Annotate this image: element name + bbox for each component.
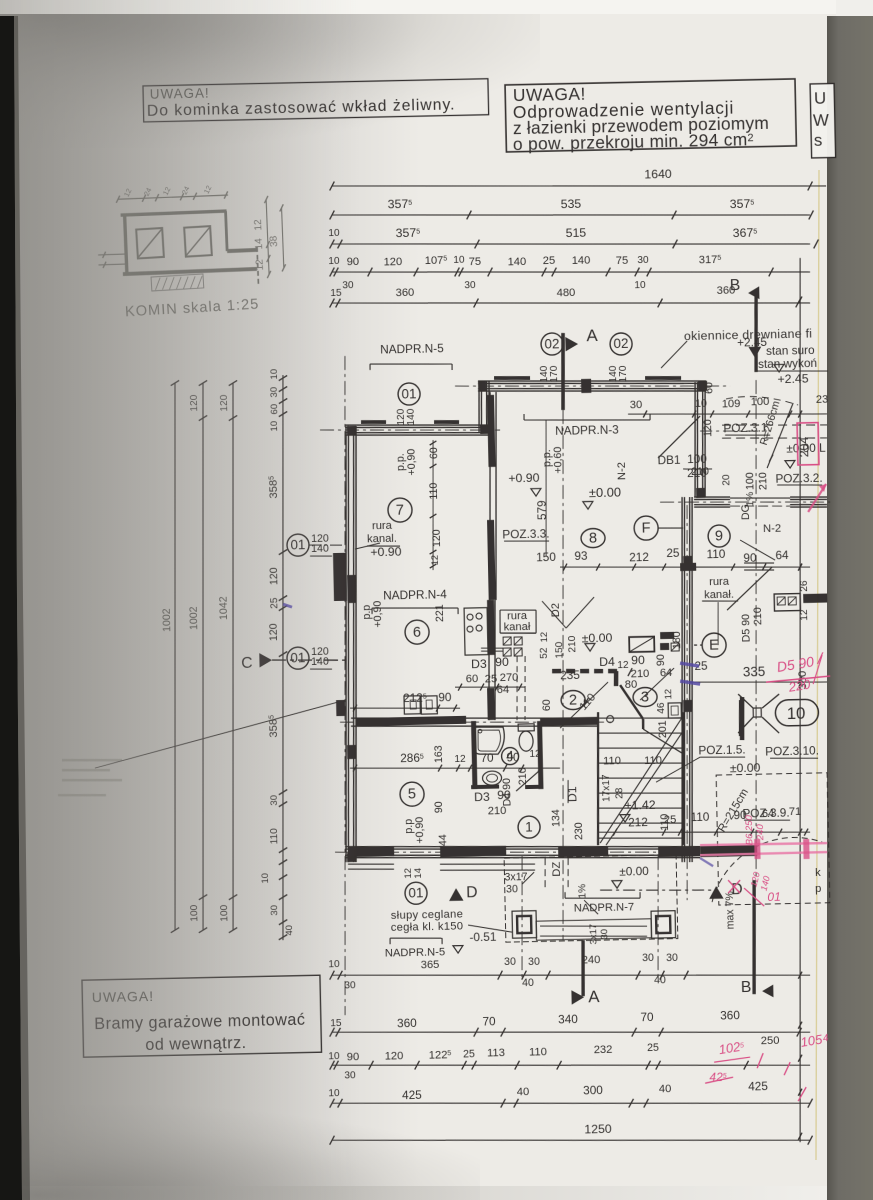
- svg-text:150: 150: [554, 641, 565, 658]
- svg-text:90: 90: [438, 690, 452, 704]
- svg-text:02: 02: [544, 336, 559, 351]
- svg-text:NADPR.N-3: NADPR.N-3: [555, 422, 619, 437]
- svg-text:240: 240: [755, 823, 766, 841]
- svg-text:100: 100: [744, 472, 756, 490]
- svg-text:64: 64: [775, 548, 789, 562]
- svg-text:+0,90: +0,90: [406, 448, 419, 475]
- svg-text:26: 26: [799, 580, 810, 592]
- svg-text:170: 170: [549, 365, 560, 382]
- svg-text:515: 515: [566, 226, 587, 240]
- svg-text:90: 90: [497, 788, 511, 802]
- svg-text:120: 120: [383, 256, 402, 268]
- svg-text:02: 02: [613, 336, 628, 351]
- svg-text:9: 9: [715, 528, 723, 544]
- svg-text:60: 60: [466, 673, 479, 685]
- svg-text:kanał.: kanał.: [704, 589, 734, 602]
- svg-text:30: 30: [630, 399, 643, 411]
- svg-text:100: 100: [687, 452, 707, 466]
- svg-text:40: 40: [517, 1086, 530, 1098]
- svg-text:2: 2: [569, 693, 577, 709]
- svg-text:40: 40: [654, 974, 666, 986]
- svg-text:+2.45: +2.45: [777, 372, 809, 387]
- svg-text:12: 12: [663, 689, 674, 700]
- svg-text:±0.00: ±0.00: [589, 485, 621, 501]
- svg-text:20: 20: [721, 474, 732, 486]
- svg-text:71: 71: [789, 806, 802, 818]
- svg-text:25: 25: [463, 1048, 475, 1060]
- svg-text:23: 23: [816, 394, 829, 406]
- svg-text:12: 12: [539, 632, 550, 643]
- svg-text:425: 425: [402, 1088, 422, 1102]
- svg-text:NADPR.N-5: NADPR.N-5: [380, 341, 444, 356]
- svg-text:k: k: [815, 867, 821, 879]
- svg-text:232: 232: [594, 1044, 613, 1056]
- svg-text:60: 60: [703, 382, 715, 394]
- svg-text:POZ.3.10.: POZ.3.10.: [765, 744, 819, 759]
- svg-text:N-2: N-2: [763, 523, 781, 535]
- svg-text:DZ: DZ: [551, 861, 563, 876]
- svg-text:64: 64: [762, 808, 775, 820]
- svg-text:+0.90: +0.90: [508, 471, 540, 486]
- svg-text:30: 30: [642, 952, 654, 964]
- svg-text:±0.00: ±0.00: [619, 864, 649, 879]
- svg-text:235: 235: [560, 668, 580, 682]
- svg-text:stan wykoń: stan wykoń: [758, 356, 817, 371]
- svg-text:DG: DG: [740, 504, 752, 520]
- svg-text:5: 5: [408, 787, 416, 803]
- svg-text:335: 335: [743, 664, 766, 679]
- svg-text:204: 204: [797, 437, 811, 458]
- svg-text:110: 110: [529, 1046, 547, 1058]
- svg-text:+0,60: +0,60: [552, 446, 565, 473]
- svg-text:70: 70: [640, 1010, 654, 1024]
- svg-text:113: 113: [487, 1047, 505, 1059]
- svg-text:10: 10: [453, 255, 465, 266]
- svg-text:A: A: [586, 326, 598, 345]
- svg-text:s: s: [814, 131, 823, 150]
- svg-text:25: 25: [666, 546, 680, 560]
- svg-text:163: 163: [433, 745, 445, 763]
- svg-text:44: 44: [437, 834, 449, 846]
- svg-text:75: 75: [616, 255, 629, 267]
- svg-text:120: 120: [702, 419, 714, 437]
- svg-text:40: 40: [659, 1083, 672, 1095]
- svg-text:240: 240: [582, 954, 601, 966]
- svg-text:25: 25: [664, 814, 677, 826]
- svg-text:8: 8: [589, 531, 597, 547]
- svg-text:90: 90: [655, 654, 667, 666]
- svg-text:1640: 1640: [644, 167, 672, 182]
- svg-text:D5 90: D5 90: [740, 614, 753, 643]
- svg-text:90: 90: [506, 750, 520, 764]
- svg-text:D: D: [466, 884, 478, 901]
- svg-text:360: 360: [720, 1008, 740, 1022]
- svg-text:30: 30: [464, 280, 476, 291]
- svg-text:01: 01: [767, 890, 781, 904]
- svg-text:535: 535: [561, 197, 582, 211]
- svg-text:579: 579: [535, 500, 549, 520]
- svg-text:110: 110: [690, 810, 710, 824]
- svg-text:93: 93: [574, 549, 588, 563]
- svg-text:40: 40: [522, 977, 534, 989]
- svg-text:+0.90: +0.90: [370, 545, 402, 560]
- svg-text:B: B: [741, 979, 752, 996]
- svg-text:D1: D1: [565, 786, 579, 802]
- svg-text:rura: rura: [372, 520, 393, 532]
- svg-text:12: 12: [529, 749, 541, 760]
- svg-text:210: 210: [488, 805, 507, 817]
- svg-text:12: 12: [617, 660, 629, 671]
- svg-text:140: 140: [406, 408, 417, 425]
- svg-text:250: 250: [761, 1035, 780, 1047]
- svg-text:NADPR.N-5: NADPR.N-5: [385, 947, 446, 960]
- svg-text:+0,90: +0,90: [372, 600, 385, 627]
- svg-text:kanał: kanał: [503, 621, 531, 634]
- svg-text:180: 180: [671, 631, 683, 649]
- svg-text:25: 25: [485, 673, 498, 685]
- svg-text:221: 221: [434, 604, 446, 622]
- svg-text:210: 210: [567, 635, 578, 652]
- svg-text:150: 150: [536, 550, 556, 564]
- svg-text:64: 64: [497, 684, 510, 696]
- svg-text:80: 80: [625, 679, 638, 691]
- svg-text:120: 120: [385, 1050, 404, 1062]
- svg-text:52: 52: [539, 647, 550, 659]
- svg-text:25: 25: [543, 255, 556, 267]
- svg-text:60: 60: [428, 447, 440, 459]
- svg-text:110: 110: [644, 755, 662, 767]
- svg-text:-0.51: -0.51: [469, 930, 496, 945]
- svg-text:212: 212: [629, 550, 649, 564]
- svg-text:10: 10: [787, 704, 806, 723]
- svg-text:210: 210: [517, 767, 529, 785]
- svg-text:270: 270: [500, 672, 519, 684]
- svg-text:70: 70: [482, 1014, 496, 1028]
- svg-text:10: 10: [634, 280, 646, 291]
- svg-text:365: 365: [421, 959, 440, 971]
- svg-text:6: 6: [413, 625, 421, 641]
- svg-text:110: 110: [603, 755, 621, 767]
- svg-text:30: 30: [599, 929, 610, 940]
- svg-text:90: 90: [495, 655, 509, 669]
- svg-text:210: 210: [752, 607, 764, 625]
- svg-text:17x17: 17x17: [601, 774, 613, 802]
- svg-text:7: 7: [396, 503, 404, 519]
- svg-text:30: 30: [637, 255, 649, 266]
- svg-text:425: 425: [748, 1079, 768, 1093]
- svg-text:140: 140: [572, 255, 591, 267]
- svg-text:POZ.1.5.: POZ.1.5.: [698, 743, 746, 758]
- svg-text:340: 340: [558, 1012, 578, 1026]
- svg-text:360: 360: [395, 287, 414, 299]
- svg-text:1250: 1250: [584, 1122, 612, 1137]
- svg-text:rura: rura: [709, 576, 730, 588]
- svg-text:1%: 1%: [577, 884, 588, 899]
- svg-text:30: 30: [528, 956, 540, 968]
- svg-text:170: 170: [618, 365, 629, 382]
- svg-text:okiennice drewniane fi: okiennice drewniane fi: [684, 326, 813, 343]
- svg-text:+0,90: +0,90: [414, 817, 427, 844]
- svg-text:360: 360: [397, 1016, 417, 1030]
- svg-text:1: 1: [525, 819, 533, 834]
- svg-text:480: 480: [557, 287, 576, 299]
- svg-text:cegła kl. k150: cegła kl. k150: [391, 920, 464, 934]
- svg-text:90: 90: [631, 653, 645, 667]
- svg-text:NADPR.N-4: NADPR.N-4: [383, 587, 447, 602]
- svg-text:+1.42: +1.42: [624, 798, 656, 813]
- svg-text:POZ.3.3.: POZ.3.3.: [502, 527, 550, 542]
- svg-text:W: W: [813, 111, 829, 130]
- svg-text:D2: D2: [550, 603, 562, 618]
- svg-text:28: 28: [614, 787, 625, 799]
- svg-text:60: 60: [541, 699, 553, 711]
- svg-text:3x17: 3x17: [588, 924, 599, 945]
- svg-text:B: B: [730, 277, 741, 294]
- svg-text:01: 01: [408, 885, 423, 900]
- svg-text:U: U: [814, 89, 827, 108]
- svg-text:140: 140: [507, 256, 526, 268]
- svg-text:30: 30: [666, 952, 678, 964]
- svg-text:01: 01: [401, 386, 416, 401]
- svg-text:300: 300: [583, 1083, 603, 1097]
- svg-text:110: 110: [428, 482, 440, 499]
- svg-text:134: 134: [550, 809, 562, 827]
- svg-text:POZ.3.2.: POZ.3.2.: [775, 471, 823, 486]
- svg-text:N-2: N-2: [616, 462, 628, 480]
- svg-text:210: 210: [691, 466, 709, 478]
- svg-text:90: 90: [433, 801, 445, 813]
- svg-text:kanal.: kanal.: [367, 533, 397, 546]
- svg-text:30: 30: [506, 883, 518, 895]
- svg-text:210: 210: [757, 472, 769, 490]
- svg-text:B6 250: B6 250: [744, 814, 756, 845]
- svg-text:NADPR.N-7: NADPR.N-7: [574, 902, 635, 915]
- svg-text:30: 30: [504, 956, 516, 968]
- svg-text:D3: D3: [474, 790, 490, 804]
- svg-text:201: 201: [657, 720, 669, 738]
- svg-text:110: 110: [706, 547, 726, 561]
- svg-text:109: 109: [722, 398, 741, 410]
- svg-text:D3: D3: [471, 657, 487, 671]
- svg-text:75: 75: [469, 256, 482, 268]
- svg-text:p: p: [815, 883, 821, 895]
- svg-text:10: 10: [695, 398, 707, 410]
- svg-text:46: 46: [656, 702, 667, 714]
- svg-text:14: 14: [413, 868, 424, 879]
- svg-text:70: 70: [480, 751, 494, 765]
- svg-text:230: 230: [573, 822, 585, 840]
- svg-text:D4: D4: [599, 655, 615, 669]
- svg-text:212: 212: [628, 815, 648, 829]
- svg-text:A: A: [588, 987, 600, 1006]
- svg-text:25: 25: [647, 1042, 659, 1054]
- svg-text:12: 12: [454, 754, 466, 765]
- svg-text:64: 64: [660, 667, 673, 679]
- svg-text:F: F: [641, 521, 650, 537]
- svg-text:±0.00: ±0.00: [730, 761, 761, 776]
